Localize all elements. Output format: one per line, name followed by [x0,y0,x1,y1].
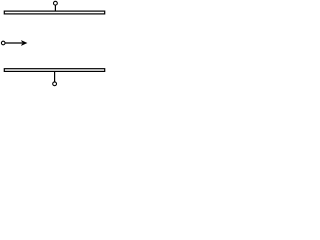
bottom terminal [53,82,57,86]
wire (top terminal to top plate) [54,5,56,11]
wire (bottom plate to bottom terminal) [54,72,56,82]
capacitor plate (top) [4,11,104,14]
capacitor plate (bottom) [4,69,104,72]
velocity arrow [5,40,27,46]
charged particle [1,41,5,45]
top terminal [54,1,58,5]
